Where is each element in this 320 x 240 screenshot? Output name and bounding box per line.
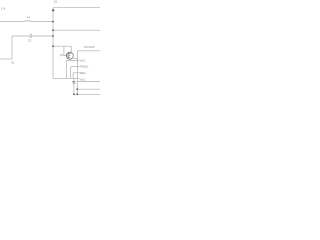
junction dot bus cap	[52, 35, 54, 37]
wire transistor to box	[73, 57, 77, 59]
junction dot bus mid	[52, 29, 54, 31]
background	[0, 0, 100, 100]
wire pin REG	[73, 72, 79, 74]
wire pin1 drop	[65, 61, 67, 79]
wire source drop	[69, 59, 71, 60]
svg-text:PS/NO: PS/NO	[80, 65, 90, 69]
wire capacitor branch left	[12, 35, 30, 37]
wire left drop	[11, 36, 13, 59]
wire top-left input	[0, 21, 24, 23]
capacitor C2 lead top	[73, 78, 75, 81]
wire drain drop	[70, 46, 72, 52]
svg-text:REG: REG	[80, 71, 86, 75]
junction dot bus top	[52, 21, 54, 23]
svg-text:VS1: VS1	[80, 78, 86, 82]
inductor L1	[24, 20, 30, 23]
wire bottom rail pin VS1	[53, 77, 79, 79]
wire pin2 drop	[70, 67, 72, 79]
junction dot via	[52, 9, 54, 11]
wire pin3 drop	[72, 73, 74, 79]
wire mid to right edge	[53, 29, 100, 31]
wire bus vertical	[52, 8, 54, 79]
junction dot gnd wire low	[76, 93, 78, 95]
svg-text:C1: C1	[28, 39, 32, 43]
capacitor C2 lead bottom	[73, 83, 75, 94]
svg-text:L1: L1	[27, 15, 31, 19]
svg-text:Q1: Q1	[60, 53, 64, 57]
wire bottom to right edge	[74, 93, 100, 95]
junction dot gnd wire	[76, 88, 78, 90]
wire gnd to right edge	[77, 88, 100, 90]
wire pin PS/NO	[71, 66, 80, 68]
wire box bottom pin drop	[76, 81, 78, 94]
wire top to right edge	[53, 7, 100, 9]
junction dot bus gate	[52, 45, 54, 47]
wire lower-left input	[0, 58, 12, 60]
wire gate drop	[64, 46, 67, 55]
svg-text:S1: S1	[54, 0, 58, 3]
svg-text:VCC24V: VCC24V	[84, 45, 95, 49]
wire pin VS1	[66, 60, 79, 62]
wire inductor to bus	[31, 21, 53, 23]
svg-text:VS1: VS1	[80, 58, 86, 62]
capacitor C2	[72, 82, 75, 83]
junction dot bottom cap	[73, 93, 75, 95]
svg-text:1N: 1N	[1, 7, 6, 11]
wire capacitor to bus	[32, 35, 53, 37]
transistor Q1	[66, 52, 73, 59]
wire bus to transistor	[53, 45, 71, 47]
capacitor C1	[29, 34, 31, 39]
IC box U1	[78, 51, 100, 82]
